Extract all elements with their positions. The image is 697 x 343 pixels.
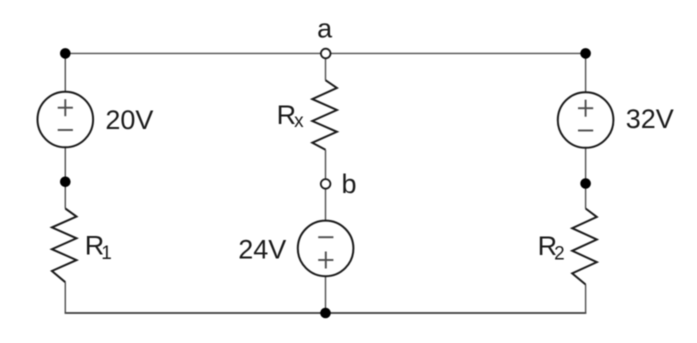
voltage source U1 20V [38, 92, 94, 148]
junction dot left middle [60, 177, 71, 188]
junction dot top-left [60, 48, 71, 59]
wire middle branch lower [325, 276, 327, 313]
node b open terminal [321, 179, 331, 189]
node a open terminal [321, 49, 331, 59]
svg-text:R2: R2 [538, 231, 565, 264]
minus sign of 20V [58, 129, 73, 131]
wire top horizontal [65, 52, 585, 54]
wire right branch middle [585, 148, 587, 209]
minus sign of 24V [318, 236, 333, 238]
junction dot bottom middle [320, 308, 331, 319]
svg-text:20V: 20V [105, 105, 153, 135]
resistor R1 [52, 209, 77, 283]
voltage source U2 24V [298, 221, 354, 277]
minus sign of 32V [578, 130, 593, 132]
wire left branch upper [64, 53, 66, 92]
wire middle branch upper [325, 54, 327, 81]
voltage source U3 32V [558, 92, 614, 148]
wire bottom horizontal [65, 312, 587, 314]
wire middle branch between node b and 24V [325, 184, 327, 221]
plus sign of 24V [318, 252, 333, 269]
junction dot right middle [580, 178, 591, 189]
svg-text:24V: 24V [238, 234, 286, 264]
resistor Rx [312, 80, 337, 150]
svg-text:Rx: Rx [277, 100, 305, 132]
svg-text:b: b [341, 169, 356, 199]
plus sign of 20V [58, 99, 73, 116]
resistor R2 [572, 209, 597, 285]
svg-text:R1: R1 [85, 231, 112, 264]
wire right branch upper [585, 53, 587, 92]
wire middle branch between Rx and node b [325, 150, 327, 184]
plus sign of 32V [578, 100, 593, 117]
wire left branch lower [64, 282, 66, 313]
svg-text:a: a [317, 14, 333, 44]
wire right branch lower [585, 285, 587, 314]
junction dot top-right [580, 48, 591, 59]
wire left branch middle [64, 147, 66, 208]
svg-text:32V: 32V [626, 104, 674, 134]
